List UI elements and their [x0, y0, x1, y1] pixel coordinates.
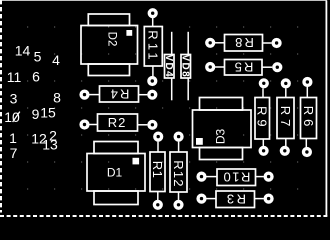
- pad R7 bottom: [281, 147, 288, 154]
- pad R8 left: [207, 39, 214, 46]
- pad R10 left: [198, 173, 205, 180]
- pad R4 right: [149, 91, 156, 98]
- wire R11 bottom: [152, 66, 154, 76]
- diode VD4: [163, 54, 174, 78]
- pad R4 left: [81, 91, 88, 98]
- svg-text:R9: R9: [255, 106, 270, 131]
- resistor R12: [170, 152, 187, 192]
- svg-text:R2: R2: [108, 115, 127, 130]
- svg-text:R12: R12: [171, 160, 186, 187]
- svg-text:VD4: VD4: [163, 54, 174, 78]
- pad R11 top: [149, 10, 156, 17]
- pad R1 top: [155, 133, 162, 140]
- wire R12 bottom: [178, 192, 180, 200]
- svg-text:D2: D2: [105, 32, 117, 47]
- resistor R8: [225, 35, 263, 52]
- svg-text:R11: R11: [146, 30, 161, 62]
- resistor R5: [225, 60, 263, 76]
- wire R11 top: [152, 18, 154, 27]
- svg-text:6: 6: [32, 69, 40, 85]
- wire VD4 top: [171, 32, 173, 55]
- svg-text:R1: R1: [150, 161, 165, 179]
- wire R1 bottom: [157, 192, 159, 201]
- pad R10 right: [265, 173, 272, 180]
- pad R2 left: [81, 121, 88, 128]
- pad R5 right: [274, 64, 281, 71]
- pad R3 left: [198, 195, 205, 202]
- svg-text:11: 11: [7, 69, 22, 85]
- wire R2 right: [138, 124, 148, 126]
- svg-text:R10: R10: [222, 170, 250, 185]
- wire VD8 top: [187, 32, 189, 55]
- wire R8 left: [215, 42, 225, 44]
- transformer D3: [193, 98, 252, 160]
- wire R6 top: [306, 87, 308, 98]
- wire R4 right: [139, 94, 148, 96]
- pad R8 right: [273, 40, 280, 47]
- svg-text:VD8: VD8: [179, 54, 190, 78]
- svg-text:R6: R6: [301, 106, 316, 131]
- resistor R7: [277, 98, 294, 139]
- wire R7 top: [285, 88, 287, 97]
- wire R10 right: [256, 176, 264, 178]
- transformer D1: [87, 142, 145, 205]
- resistor R4: [100, 86, 139, 102]
- wire R5 left: [215, 66, 225, 68]
- svg-text:R7: R7: [278, 106, 293, 131]
- resistor R6: [301, 98, 317, 139]
- wire R7 bottom: [285, 139, 287, 147]
- svg-text:R3: R3: [224, 192, 246, 207]
- pad R9 top: [260, 80, 267, 87]
- wire R5 right: [262, 66, 272, 68]
- wire R3 left: [206, 198, 216, 200]
- pad R1 bottom: [154, 201, 161, 208]
- resistor R11: [144, 27, 162, 67]
- wire VD8 bottom: [187, 78, 189, 100]
- wire R12 top: [178, 142, 180, 152]
- wire R4 left: [89, 94, 99, 96]
- pad R7 top: [282, 80, 289, 87]
- wire VD4 bottom: [171, 78, 173, 100]
- resistor R10: [217, 169, 256, 186]
- svg-text:R5: R5: [233, 60, 254, 75]
- svg-text:D1: D1: [107, 165, 123, 179]
- svg-text:R8: R8: [233, 35, 254, 50]
- svg-text:5: 5: [34, 49, 42, 65]
- transformer D2: [81, 14, 138, 76]
- wire R1 top: [157, 142, 159, 152]
- pad R11 bottom: [149, 78, 156, 85]
- pad R6 top: [304, 79, 311, 86]
- svg-text:14: 14: [15, 43, 31, 59]
- pad R12 top: [175, 133, 182, 140]
- wire R9 top: [262, 88, 264, 97]
- svg-text:D3: D3: [213, 129, 227, 145]
- resistor R2: [98, 114, 138, 131]
- wire R8 right: [263, 42, 272, 44]
- svg-text:4: 4: [52, 52, 60, 68]
- wire R3 right: [255, 198, 264, 200]
- resistor R9: [255, 98, 270, 140]
- pad R9 bottom: [260, 147, 267, 154]
- resistor R3: [216, 191, 255, 208]
- diode VD8: [179, 54, 190, 78]
- wire R2 left: [89, 124, 97, 126]
- pad R12 bottom: [175, 201, 182, 208]
- svg-text:1: 1: [9, 130, 17, 146]
- svg-text:R4: R4: [109, 86, 130, 101]
- svg-text:7: 7: [10, 145, 18, 161]
- pad R3 right: [265, 195, 272, 202]
- pad R5 left: [207, 64, 214, 71]
- wire R6 bottom: [305, 139, 307, 148]
- svg-text:13: 13: [42, 137, 58, 153]
- svg-text:9: 9: [32, 106, 40, 122]
- wire R9 bottom: [262, 139, 264, 146]
- pad R2 right: [149, 121, 156, 128]
- pad R6 bottom: [304, 149, 311, 156]
- svg-text:3: 3: [10, 91, 18, 107]
- pin number 10 zero slash: [13, 112, 20, 122]
- svg-text:8: 8: [53, 90, 61, 106]
- resistor R1: [150, 152, 165, 192]
- wire R10 left: [206, 176, 217, 178]
- svg-text:15: 15: [40, 105, 56, 121]
- svg-text:10: 10: [4, 109, 20, 125]
